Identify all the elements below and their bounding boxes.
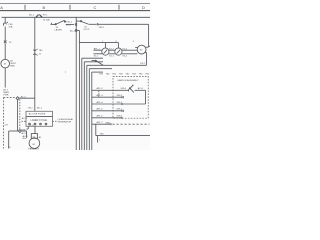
svg-text:AC-1: AC-1 — [29, 14, 35, 17]
svg-text:FU 1: FU 1 — [43, 15, 49, 17]
svg-text:APL-5: APL-5 — [97, 108, 104, 111]
svg-text:AC LINE FILTER: AC LINE FILTER — [29, 113, 46, 116]
svg-text:HANDLE ASSEMBLY: HANDLE ASSEMBLY — [118, 79, 140, 82]
svg-text:K2-2: K2-2 — [123, 49, 128, 51]
svg-text:K3-1: K3-1 — [123, 56, 128, 58]
svg-text:GENERATOR: GENERATOR — [58, 121, 72, 124]
svg-text:SW-3: SW-3 — [117, 95, 123, 97]
svg-text:AC-2: AC-2 — [66, 23, 72, 26]
svg-text:APL-6: APL-6 — [97, 115, 104, 118]
svg-text:K2-1: K2-1 — [109, 56, 114, 58]
svg-text:SW-1: SW-1 — [117, 109, 123, 111]
svg-text:15A: 15A — [8, 26, 12, 29]
svg-text:APL-4: APL-4 — [97, 101, 104, 104]
svg-text:APL-3: APL-3 — [97, 94, 104, 97]
svg-text:PWR: PWR — [3, 95, 9, 97]
svg-text:LASER: LASER — [55, 29, 63, 32]
svg-text:APL-7: APL-7 — [97, 121, 104, 124]
svg-text:FAN: FAN — [10, 65, 15, 68]
svg-text:GND: GND — [105, 122, 110, 124]
svg-text:A: A — [149, 45, 150, 48]
svg-text:TB2-1: TB2-1 — [66, 22, 73, 24]
svg-text:TB3-1: TB3-1 — [98, 27, 105, 29]
svg-text:K3-2: K3-2 — [140, 63, 145, 65]
svg-text:D: D — [142, 5, 145, 10]
svg-text:GND: GND — [21, 129, 26, 131]
svg-text:AC-2: AC-2 — [70, 29, 76, 32]
svg-text:AC-4: AC-4 — [21, 95, 27, 98]
svg-text:FAN ASSY: FAN ASSY — [29, 148, 40, 150]
svg-text:15 20A: 15 20A — [43, 18, 50, 21]
svg-text:APL-1: APL-1 — [94, 48, 101, 51]
svg-text:SW-0: SW-0 — [117, 116, 123, 118]
svg-text:B: B — [43, 5, 46, 10]
svg-text:AC-1: AC-1 — [37, 106, 43, 109]
svg-text:AC 1: AC 1 — [3, 88, 9, 91]
svg-text:C: C — [94, 5, 97, 10]
svg-text:LASER CYCLE: LASER CYCLE — [31, 119, 48, 122]
svg-text:SW-2: SW-2 — [117, 102, 123, 104]
svg-text:M: M — [4, 64, 6, 66]
svg-text:AC-6: AC-6 — [138, 87, 144, 90]
svg-text:MAIN: MAIN — [3, 91, 9, 94]
svg-text:AC-5: AC-5 — [22, 132, 28, 135]
svg-text:QUENCH/SEAL: QUENCH/SEAL — [58, 118, 74, 121]
svg-text:K1-2: K1-2 — [109, 49, 114, 51]
svg-text:A: A — [0, 5, 3, 10]
svg-text:SW-4: SW-4 — [121, 88, 127, 90]
svg-text:AC-2: AC-2 — [22, 117, 28, 120]
svg-text:1 2 3 4: 1 2 3 4 — [29, 125, 34, 127]
svg-text:CH: CH — [5, 125, 9, 127]
svg-text:K1-1: K1-1 — [94, 56, 99, 58]
svg-text:TB-1: TB-1 — [28, 107, 34, 109]
svg-text:APL-2: APL-2 — [97, 87, 104, 90]
svg-text:STOP: STOP — [83, 29, 89, 31]
svg-text:BLK: BLK — [23, 138, 28, 140]
